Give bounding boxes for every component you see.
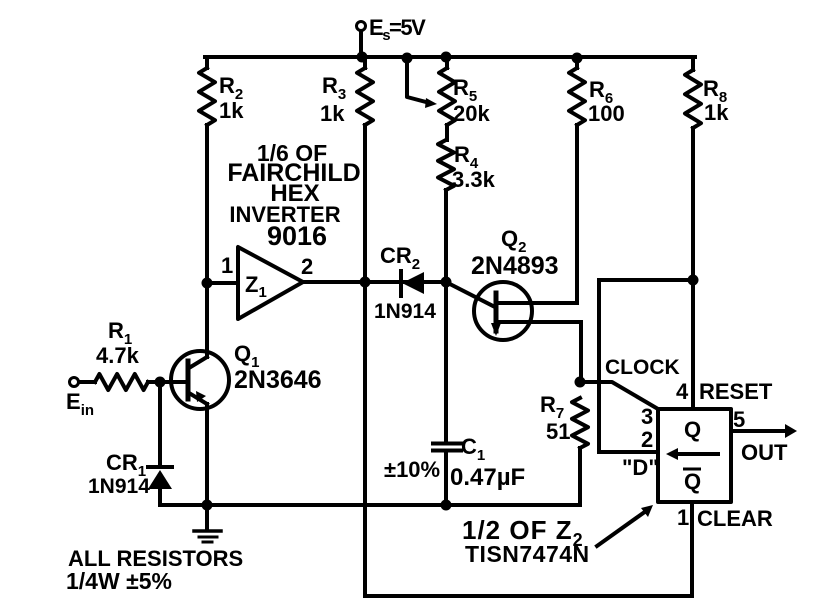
svg-text:Q: Q [684, 417, 701, 442]
ground symbol [205, 505, 209, 530]
svg-text:2N4893: 2N4893 [471, 252, 559, 280]
node Es terminal [357, 22, 366, 31]
wire D input loop [599, 280, 693, 452]
node junction Z1 output [360, 277, 371, 288]
divider arrow inside flip-flop [674, 452, 718, 456]
svg-text:4: 4 [676, 379, 689, 404]
wire Z1 output [303, 280, 365, 284]
svg-text:Ein: Ein [66, 389, 94, 419]
wire Es stub [359, 31, 363, 57]
svg-text:100: 100 [588, 101, 625, 126]
node junction C1-ground rail [441, 500, 452, 511]
svg-text:9016: 9016 [267, 221, 327, 251]
resistor R4 [438, 140, 454, 282]
svg-text:Z1: Z1 [245, 272, 267, 301]
svg-text:1: 1 [221, 253, 233, 278]
resistor R5 [439, 57, 455, 140]
resistor R8 [685, 57, 701, 409]
svg-text:4.7k: 4.7k [96, 343, 140, 368]
svg-text:R7: R7 [540, 392, 564, 422]
wire clear loop [365, 282, 692, 596]
node junction Z1 input [202, 278, 213, 289]
resistor R1 [79, 374, 188, 390]
wire clock to pin3 [580, 382, 658, 409]
node junction D-reset [688, 275, 699, 286]
svg-text:1k: 1k [219, 98, 244, 123]
flip-flop U-Z2 box [658, 409, 731, 502]
svg-text:1/4W ±5%: 1/4W ±5% [66, 568, 172, 594]
node junction R1-Q1 base [155, 377, 166, 388]
transistor Q2 [474, 282, 532, 340]
svg-text:1k: 1k [704, 100, 729, 125]
svg-text:TISN7474N: TISN7474N [465, 541, 590, 567]
svg-text:1: 1 [677, 505, 689, 530]
node junction wiper-rail [402, 53, 413, 64]
node junction clock [575, 377, 586, 388]
svg-text:CR2: CR2 [380, 243, 420, 273]
wire ground rail [160, 503, 580, 507]
node junction CR2-R4 [441, 277, 452, 288]
wire Q output [731, 429, 786, 433]
svg-text:1N914: 1N914 [88, 475, 150, 498]
svg-text:5: 5 [733, 407, 745, 432]
svg-text:0.47µF: 0.47µF [450, 464, 525, 491]
input terminal Ein [70, 378, 79, 387]
svg-text:Q: Q [684, 469, 701, 494]
svg-text:20k: 20k [453, 101, 490, 126]
svg-text:±10%: ±10% [384, 457, 440, 482]
svg-text:2N3646: 2N3646 [234, 366, 322, 394]
svg-text:RESET: RESET [699, 379, 773, 404]
node junction R6-rail [572, 53, 583, 64]
svg-text:"D": "D" [622, 455, 659, 480]
svg-text:1k: 1k [320, 101, 345, 126]
resistor R6 [569, 57, 585, 303]
svg-text:R3: R3 [322, 73, 346, 103]
diode CR1 [158, 382, 162, 466]
node junction Es-rail [357, 52, 368, 63]
svg-text:1N914: 1N914 [374, 300, 436, 323]
svg-text:51: 51 [546, 419, 570, 444]
svg-text:2: 2 [641, 427, 653, 452]
diode CR2 [399, 271, 403, 296]
wire Z1 input [207, 281, 238, 285]
resistor R3 [357, 57, 373, 282]
wire annotation arrow Z2 [597, 511, 646, 546]
wire CR2 link [365, 280, 446, 284]
label Qbar overbar [683, 468, 701, 471]
transistor Q1 [171, 351, 229, 409]
wire top supply rail [205, 55, 695, 59]
node junction R5-rail [441, 52, 452, 63]
svg-text:C1: C1 [461, 434, 485, 464]
svg-text:OUT: OUT [741, 440, 788, 465]
svg-text:CLOCK: CLOCK [605, 356, 680, 379]
wire wiper arrow to R5 [407, 57, 430, 103]
svg-text:3.3k: 3.3k [452, 167, 496, 192]
node junction ground [202, 500, 213, 511]
resistor R2 [199, 57, 215, 283]
resistor R7 [572, 398, 588, 505]
svg-text:3: 3 [641, 404, 653, 429]
svg-text:CLEAR: CLEAR [697, 506, 773, 531]
inverter U-Z1 triangle [238, 247, 303, 319]
svg-text:2: 2 [301, 254, 313, 279]
capacitor C1 [444, 282, 448, 441]
svg-text:Es=5V: Es=5V [369, 15, 426, 44]
